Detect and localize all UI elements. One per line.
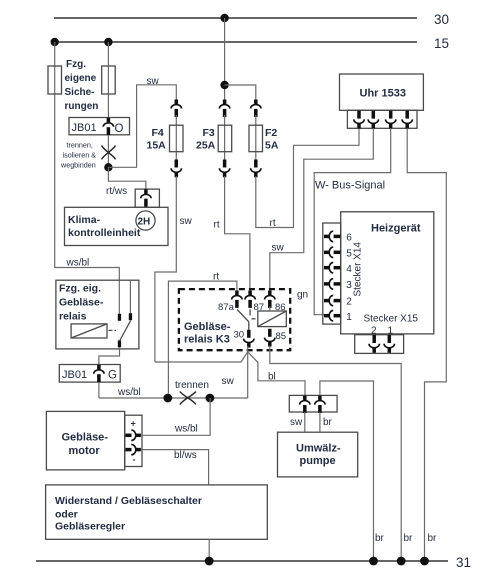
node bus 31 br3: [420, 557, 429, 566]
svg-text:Fzg. eig.: Fzg. eig.: [59, 283, 101, 295]
wire sw Uhr pin 2 to relay pin 86: [270, 128, 374, 290]
connector in JB01: [103, 118, 113, 135]
wire Widerstand to bus 31: [208, 539, 210, 561]
svg-text:Heizgerät: Heizgerät: [371, 223, 421, 235]
box Uhr 1533: [340, 74, 424, 110]
connector K3 pin 30: [244, 330, 254, 348]
box Fzg. eig. Geblaeserelais: [56, 280, 139, 349]
svg-text:ws/bl: ws/bl: [117, 387, 141, 398]
svg-text:Gebläse-: Gebläse-: [62, 432, 109, 444]
svg-text:wegbinden: wegbinden: [60, 161, 96, 170]
wire sw F4 node to K3 pin 30: [155, 352, 248, 362]
wire left fuse column ws/bl: [55, 42, 120, 316]
wire switch to JB01 G: [99, 347, 120, 365]
label Fzg. eigene Sicherungen: [65, 59, 99, 112]
svg-text:trennen,: trennen,: [67, 141, 93, 150]
cut mark X trennen: [180, 392, 196, 405]
node on line 30: [220, 14, 228, 22]
svg-text:Gebläse-: Gebläse-: [184, 321, 231, 333]
connector pump br: [315, 396, 325, 413]
box Heizgeraet: [341, 212, 434, 334]
connector X14 pin 3: [324, 279, 340, 289]
connector motor plus: [126, 430, 141, 440]
svg-text:kontrolleinheit: kontrolleinheit: [68, 227, 141, 239]
svg-text:+: +: [131, 419, 136, 429]
svg-text:trennen: trennen: [175, 380, 209, 391]
wire JB01 to cut point: [107, 135, 109, 167]
connector K3 pin 87: [245, 291, 255, 308]
svg-text:motor: motor: [69, 445, 101, 457]
connector below F4: [171, 160, 181, 178]
connector K3 pin 85: [265, 329, 275, 347]
dashed box Geblaeserelais K3: [179, 289, 290, 350]
connector X14 pin 5: [324, 247, 340, 257]
svg-text:F2: F2: [265, 127, 277, 139]
connector K3 pin 86: [265, 291, 275, 308]
fuse F2 5A: [249, 125, 279, 152]
connector Uhr pin 4: [402, 111, 412, 129]
svg-text:oder: oder: [55, 509, 78, 521]
svg-text:sw: sw: [147, 76, 160, 87]
wire bl K3 pin 30 to pump connector: [248, 352, 305, 396]
svg-text:br: br: [323, 417, 333, 428]
connector below F2: [251, 160, 261, 178]
svg-text:Fzg.: Fzg.: [66, 59, 86, 70]
connector X14 pin 1: [324, 311, 340, 321]
connector Uhr pin 3: [386, 111, 396, 129]
svg-text:Uhr 1533: Uhr 1533: [360, 88, 406, 100]
connector X14 pin 4: [324, 263, 340, 273]
node under cut mark: [104, 163, 112, 171]
svg-text:sw: sw: [272, 243, 285, 254]
wire rt F2 to Uhr pin 1: [256, 128, 359, 227]
connector box 2H on Klimakontrolleinheit: [135, 189, 159, 207]
box Klimakontrolleinheit: [65, 207, 169, 245]
svg-text:85: 85: [276, 331, 287, 342]
wire branch to F2: [225, 85, 256, 100]
svg-text:eigene: eigene: [65, 73, 97, 84]
svg-text:sw: sw: [222, 376, 235, 387]
svg-text:15A: 15A: [147, 140, 167, 152]
pin numbers X14: [346, 233, 352, 324]
fuse F3 25A: [196, 125, 232, 152]
svg-text:Umwälz-: Umwälz-: [296, 443, 341, 455]
wire ws/bl motor plus: [141, 398, 210, 435]
bus line 15: [54, 36, 449, 51]
fuse Fzg. eigene Sicherung left: [48, 66, 62, 94]
connector pump sw: [300, 396, 310, 413]
wire rt F3 to relay pin 87: [225, 176, 250, 291]
svg-text:bl: bl: [268, 372, 276, 383]
pin box of Uhr: [347, 110, 417, 128]
wire br Uhr pin 4 to bus 31: [407, 128, 446, 561]
svg-text:31: 31: [456, 555, 471, 570]
node on bus 31: [205, 557, 214, 566]
connector above F4: [171, 100, 181, 117]
bus line 30: [54, 12, 449, 27]
svg-text:rt: rt: [270, 218, 276, 229]
svg-text:rt/ws: rt/ws: [106, 186, 127, 197]
svg-text:2H: 2H: [138, 217, 151, 228]
svg-text:JB01: JB01: [62, 369, 87, 381]
svg-text:sw: sw: [180, 216, 193, 227]
connector Uhr pin 1: [354, 111, 364, 129]
svg-text:ws/bl: ws/bl: [66, 258, 90, 269]
svg-text:relais K3: relais K3: [184, 334, 230, 346]
wire into F3: [224, 115, 226, 160]
cut mark X (trennen) at JB01: [102, 146, 116, 160]
svg-text:Gebläseregler: Gebläseregler: [55, 521, 125, 533]
relay box JB01 upper: [69, 118, 130, 136]
svg-text:30: 30: [234, 330, 245, 341]
connector above F2: [251, 100, 261, 117]
svg-text:25A: 25A: [196, 140, 216, 152]
relay switch Fzg eig: [118, 280, 132, 347]
svg-text:rt: rt: [213, 272, 219, 283]
wire right fuse column: [107, 42, 109, 118]
svg-text:F3: F3: [203, 127, 215, 139]
node bus 31 br1: [369, 557, 378, 566]
connector X14 pin 6: [324, 231, 340, 241]
svg-text:Gebläse-: Gebläse-: [59, 297, 104, 309]
connector box Umwaelzpumpe: [289, 395, 337, 412]
wire JB01 G down: [98, 382, 100, 398]
connector motor minus: [126, 444, 141, 454]
node bus 31 br2: [397, 557, 406, 566]
node on line 15 left: [51, 38, 59, 46]
connector in JB01 G: [94, 365, 104, 382]
wire ws/bl junction line: [99, 397, 248, 399]
node on line 15 right: [104, 38, 112, 46]
relay switch blade K3: [237, 310, 250, 332]
connector Uhr pin 2: [368, 111, 378, 129]
box Umwaelzpumpe: [278, 432, 358, 477]
svg-text:2: 2: [346, 297, 352, 308]
node junction left: [163, 394, 172, 403]
svg-text:15: 15: [434, 36, 449, 51]
terminal circle 2H: [136, 211, 155, 230]
note trennen, isolieren & wegbinden: [60, 141, 96, 170]
terminal box of motor: [125, 415, 142, 466]
connector K3 pin 87a: [232, 291, 242, 308]
relay coil K3: [252, 307, 287, 327]
wire rt to relay contact 87a: [168, 281, 237, 393]
relay coil Fzg eig: [71, 324, 116, 338]
svg-text:relais: relais: [59, 311, 87, 323]
fuse F4 15A: [147, 125, 184, 152]
connector below F3: [219, 160, 229, 178]
wire into F4: [175, 115, 177, 160]
connector 2H: [141, 189, 151, 206]
relay box JB01 G: [59, 365, 120, 383]
wire gn Uhr pin 3 to Stecker X14 pin 1: [314, 128, 391, 314]
box Geblaesemotor: [46, 411, 124, 470]
svg-text:br: br: [404, 533, 414, 544]
svg-text:ws/bl: ws/bl: [174, 424, 198, 435]
connector above F3: [219, 100, 229, 117]
wire F3 column from bus 30: [224, 18, 226, 100]
svg-text:Stecker X15: Stecker X15: [364, 314, 419, 325]
svg-text:87a: 87a: [218, 302, 235, 313]
wire pump sw down: [304, 412, 306, 432]
svg-text:rungen: rungen: [65, 101, 99, 112]
pin box Stecker X15: [355, 335, 404, 354]
box Widerstand / Geblaeseschalter: [46, 485, 268, 539]
connector X15 pin 2: [369, 335, 379, 353]
wire into F2: [255, 115, 257, 160]
svg-text:isolieren &: isolieren &: [63, 151, 97, 160]
bus line 31: [36, 555, 471, 570]
svg-text:5: 5: [346, 249, 352, 260]
svg-text:G: G: [108, 370, 117, 382]
svg-text:W- Bus-Signal: W- Bus-Signal: [315, 180, 385, 192]
svg-text:5A: 5A: [265, 140, 279, 152]
svg-text:3: 3: [346, 280, 352, 291]
svg-text:1: 1: [346, 312, 352, 323]
wire bl/ws motor minus: [141, 450, 209, 485]
svg-text:6: 6: [346, 233, 352, 244]
pin box Stecker X14: [323, 223, 341, 324]
svg-text:br: br: [375, 533, 385, 544]
wire sw from node up to fuse F4: [108, 85, 176, 168]
svg-text:pumpe: pumpe: [300, 455, 336, 467]
wire pump br down: [319, 412, 321, 432]
wire sw F4 down: [155, 176, 176, 362]
node above F3: [220, 81, 228, 89]
svg-text:Siche-: Siche-: [65, 87, 95, 98]
connector X15 pin 1: [384, 335, 394, 353]
wire br pump to bus 31: [320, 381, 374, 561]
svg-text:Widerstand / Gebläseschalter: Widerstand / Gebläseschalter: [55, 495, 202, 507]
svg-text:rt: rt: [214, 220, 220, 231]
svg-text:JB01: JB01: [72, 122, 97, 134]
node junction right: [206, 394, 215, 403]
pin numbers X15: [371, 326, 394, 337]
svg-text:30: 30: [434, 12, 449, 27]
wire rt/ws node to 2H: [108, 167, 145, 189]
connector X14 pin 2: [324, 295, 340, 305]
svg-text:F4: F4: [152, 127, 164, 139]
svg-text:O: O: [115, 123, 124, 135]
wire K3 pin 30 down to junction: [247, 346, 249, 398]
wire K3 pin 85 to bus 31: [270, 346, 401, 562]
svg-text:bl/ws: bl/ws: [174, 450, 197, 461]
svg-text:gn: gn: [297, 290, 308, 301]
svg-text:sw: sw: [290, 417, 303, 428]
svg-text:4: 4: [346, 264, 352, 275]
svg-text:-: -: [133, 455, 136, 465]
fuse Fzg. eigene Sicherung right: [102, 66, 116, 94]
svg-text:Klima-: Klima-: [68, 214, 101, 226]
svg-text:br: br: [428, 533, 438, 544]
svg-text:Stecker X14: Stecker X14: [353, 242, 364, 297]
